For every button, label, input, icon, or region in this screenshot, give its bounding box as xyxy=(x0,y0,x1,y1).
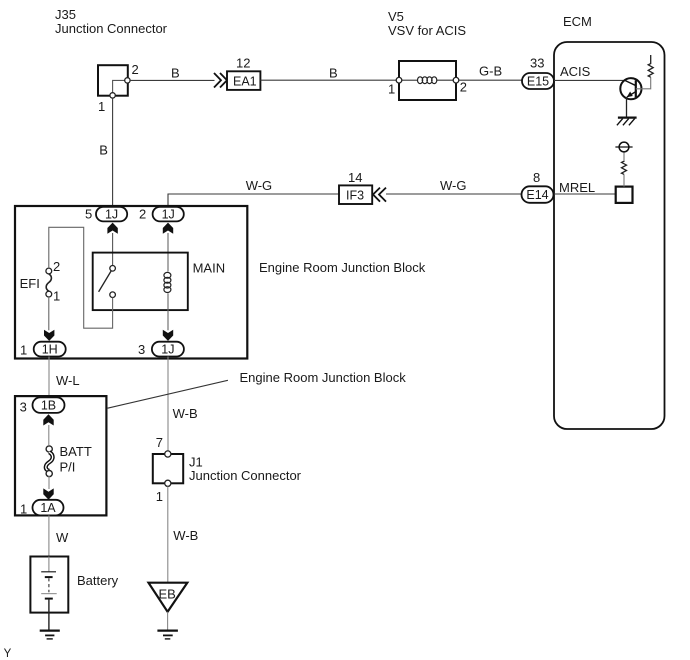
wire W-B: 3 1J down to J1 xyxy=(167,357,169,452)
arrow up below 1B xyxy=(43,414,53,425)
svg-text:8: 8 xyxy=(533,170,540,185)
VSV pin 1 xyxy=(396,77,402,83)
svg-text:2: 2 xyxy=(139,207,146,222)
svg-text:J35: J35 xyxy=(55,7,76,22)
wire W-G: IF3 to E14 xyxy=(386,193,523,195)
svg-text:G-B: G-B xyxy=(479,64,502,79)
ground (battery) xyxy=(40,629,60,631)
wire into relay coil xyxy=(167,233,169,272)
wire W-B: J1 to EB xyxy=(167,486,169,582)
arrow down above 1A xyxy=(43,488,53,499)
svg-text:33: 33 xyxy=(530,56,544,71)
wire W-L: 1H to 1B xyxy=(48,357,50,398)
svg-text:B: B xyxy=(171,66,180,81)
svg-text:1: 1 xyxy=(20,502,27,517)
wire into relay switch xyxy=(112,233,114,266)
svg-text:1: 1 xyxy=(20,343,27,358)
J35 pin 1 xyxy=(110,93,115,98)
svg-text:1: 1 xyxy=(156,489,163,504)
svg-text:Junction Connector: Junction Connector xyxy=(189,468,302,483)
svg-text:W-L: W-L xyxy=(56,373,80,388)
svg-text:B: B xyxy=(329,66,338,81)
arrow down above 3 1J xyxy=(163,330,173,341)
engine room junction block (main) xyxy=(15,206,247,359)
ground (EB) xyxy=(157,629,178,631)
arrow up below 2 1J xyxy=(163,223,173,234)
wire coil to 3 1J xyxy=(167,293,169,330)
ground point EB xyxy=(149,583,188,612)
svg-text:2: 2 xyxy=(132,62,139,77)
emitter lead xyxy=(626,97,628,117)
junction connector J35 xyxy=(98,65,128,96)
J35 pin 2 xyxy=(125,78,130,83)
ECM box xyxy=(554,42,665,429)
svg-text:IF3: IF3 xyxy=(346,189,364,203)
svg-text:W-B: W-B xyxy=(173,528,198,543)
page link EA1 xyxy=(227,71,260,90)
svg-text:2: 2 xyxy=(460,80,467,95)
resistor above square xyxy=(623,174,625,186)
battery box xyxy=(30,557,68,613)
wire B: EA1 to VSV xyxy=(260,79,398,81)
wire B: J35 pin1 down to junction block xyxy=(112,98,114,207)
battery internals xyxy=(48,557,50,572)
VSV pin 2 xyxy=(453,77,459,83)
svg-text:W-G: W-G xyxy=(440,178,466,193)
svg-text:E14: E14 xyxy=(526,188,548,202)
svg-text:14: 14 xyxy=(348,170,362,185)
wire W: 1A to battery xyxy=(48,515,50,556)
collector lead xyxy=(636,77,651,89)
svg-text:Junction Connector: Junction Connector xyxy=(55,21,168,36)
power symbol circle xyxy=(619,142,629,152)
svg-text:3: 3 xyxy=(20,400,27,415)
arrow up below 5 1J xyxy=(107,223,117,234)
svg-text:EFI: EFI xyxy=(20,276,40,291)
J35 internal jumper xyxy=(113,80,128,95)
wire ACIS inside ECM xyxy=(554,79,625,81)
svg-text:Y: Y xyxy=(4,648,12,660)
svg-text:BATT: BATT xyxy=(60,444,92,459)
relay switch blade xyxy=(99,271,112,292)
svg-text:EA1: EA1 xyxy=(233,74,257,88)
svg-text:Battery: Battery xyxy=(77,573,119,588)
leader line xyxy=(108,380,228,408)
svg-text:1A: 1A xyxy=(40,501,56,515)
relay switch contact top xyxy=(110,266,116,272)
svg-text:5: 5 xyxy=(85,207,92,222)
arrow down above 1H xyxy=(44,330,54,341)
svg-text:ACIS: ACIS xyxy=(560,64,591,79)
wire MREL inside ECM xyxy=(554,193,616,195)
transistor (ECM output) xyxy=(620,78,641,99)
svg-text:1: 1 xyxy=(388,82,395,97)
VSV V5 box xyxy=(399,61,456,100)
svg-text:EB: EB xyxy=(159,587,176,602)
svg-text:Engine Room Junction Block: Engine Room Junction Block xyxy=(259,260,426,275)
svg-text:12: 12 xyxy=(236,56,250,71)
svg-text:1J: 1J xyxy=(162,207,175,221)
svg-text:Engine Room Junction Block: Engine Room Junction Block xyxy=(240,370,407,385)
svg-text:ECM: ECM xyxy=(563,14,592,29)
jumper wire relay to EFI xyxy=(49,227,113,328)
svg-text:1J: 1J xyxy=(161,343,174,357)
svg-text:W: W xyxy=(56,530,69,545)
wire W-G: junction block to IF3 xyxy=(168,194,339,207)
relay MAIN box xyxy=(93,253,188,311)
relay coil xyxy=(164,272,171,292)
relay switch contact bottom xyxy=(110,292,116,298)
svg-text:2: 2 xyxy=(53,259,60,274)
engine room junction block 2 xyxy=(15,396,106,515)
svg-text:1: 1 xyxy=(53,289,60,304)
connector arrows EA1 (>>) xyxy=(214,73,221,88)
svg-text:MREL: MREL xyxy=(559,180,595,195)
svg-text:7: 7 xyxy=(156,435,163,450)
svg-text:W-G: W-G xyxy=(246,178,272,193)
svg-text:1J: 1J xyxy=(105,207,118,221)
MREL driver square xyxy=(616,187,633,203)
VSV coil xyxy=(402,79,418,81)
svg-text:1H: 1H xyxy=(42,343,58,357)
wire fuse to 1A xyxy=(48,476,50,489)
svg-text:MAIN: MAIN xyxy=(193,261,226,276)
svg-text:W-B: W-B xyxy=(173,406,198,421)
chassis ground (transistor emitter) xyxy=(618,116,637,118)
svg-text:3: 3 xyxy=(138,342,145,357)
svg-text:VSV for ACIS: VSV for ACIS xyxy=(388,23,466,38)
svg-text:B: B xyxy=(99,143,108,158)
wire EFI to 1H xyxy=(48,297,50,330)
svg-text:1B: 1B xyxy=(41,399,56,413)
fusible link BATT P/I xyxy=(46,446,52,452)
svg-text:V5: V5 xyxy=(388,9,404,24)
resistor (collector pull-up) xyxy=(648,55,653,77)
wire to BATT fuse xyxy=(48,425,50,445)
wire EB to ground xyxy=(167,612,169,630)
connector arrows IF3 (<<) xyxy=(373,188,380,202)
svg-text:P/I: P/I xyxy=(60,460,76,475)
svg-text:E15: E15 xyxy=(527,75,549,89)
wire B: J35 pin2 to EA1 chevrons xyxy=(130,79,214,81)
svg-text:1: 1 xyxy=(98,99,105,114)
wire G-B: VSV to E15 xyxy=(459,79,523,81)
